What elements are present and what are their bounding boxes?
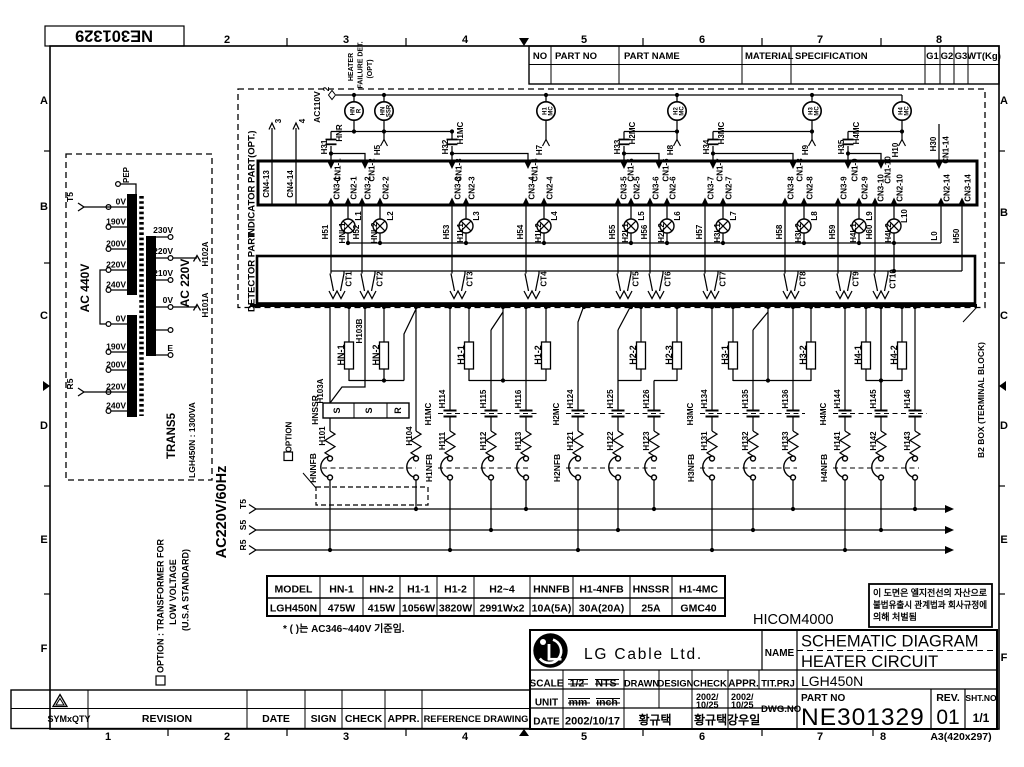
svg-text:H10: H10 — [891, 142, 900, 157]
MC dashed link H1MC — [438, 413, 538, 415]
svg-text:CN2-4: CN2-4 — [546, 176, 555, 200]
indicator-detector dashed enclosure — [238, 89, 985, 308]
svg-text:H116: H116 — [514, 389, 523, 408]
wire to bus — [449, 480, 451, 550]
svg-text:475W: 475W — [328, 603, 356, 615]
svg-text:H2-2: H2-2 — [628, 345, 638, 365]
svg-text:REFERENCE DRAWING: REFERENCE DRAWING — [424, 714, 529, 724]
MC dashed link H2MC — [566, 413, 666, 415]
heater capacitor H144 — [844, 306, 846, 411]
svg-text:H1-2: H1-2 — [444, 584, 467, 596]
wire to bus — [329, 480, 331, 550]
svg-text:H60: H60 — [865, 224, 874, 239]
heater element H111 — [449, 418, 451, 432]
svg-text:B: B — [1000, 207, 1008, 219]
resistor H3-2 — [810, 306, 812, 343]
svg-text:B: B — [40, 201, 48, 213]
svg-text:H54: H54 — [516, 224, 525, 239]
svg-text:200V: 200V — [106, 360, 126, 370]
contact H34 — [712, 132, 714, 140]
connector CN3-2 — [358, 198, 365, 206]
connector CN2-9 — [855, 198, 862, 206]
svg-text:R5: R5 — [238, 539, 248, 550]
wire H104 — [415, 306, 417, 432]
connector CN1-6 — [655, 162, 662, 170]
wire H101A — [173, 306, 197, 308]
connector CN1-9 — [844, 162, 851, 170]
wire lamp feed — [383, 95, 385, 102]
svg-text:CT5: CT5 — [632, 271, 641, 287]
svg-text:H3-2: H3-2 — [798, 345, 808, 365]
svg-text:CN3-10: CN3-10 — [877, 174, 886, 202]
svg-text:H115: H115 — [479, 389, 488, 408]
current transformer CT7 — [717, 271, 719, 274]
svg-text:H58: H58 — [775, 224, 784, 239]
svg-text:0V: 0V — [116, 197, 127, 207]
svg-text:HNL2: HNL2 — [370, 222, 379, 243]
svg-text:CN2-8: CN2-8 — [806, 176, 815, 200]
svg-text:H144: H144 — [833, 389, 842, 409]
heater capacitor H126 — [653, 381, 655, 411]
connector CN3-14 — [958, 198, 965, 206]
svg-text:7: 7 — [817, 34, 823, 46]
svg-text:황규택: 황규택 — [638, 712, 671, 727]
wire H50 — [961, 205, 963, 271]
title strip NE301329 box (mirrored) — [45, 26, 184, 46]
heater element H101 — [329, 418, 331, 431]
svg-text:CT2: CT2 — [376, 271, 385, 287]
connector CN2-14 — [937, 198, 944, 206]
indicator lamp L1 — [341, 219, 355, 233]
breaker pole — [710, 456, 715, 461]
svg-text:CHECK: CHECK — [693, 679, 727, 690]
svg-text:SIGN: SIGN — [311, 713, 337, 725]
svg-text:HNNFB: HNNFB — [308, 453, 318, 483]
wire to bus — [711, 480, 713, 550]
svg-text:H1MC: H1MC — [424, 402, 433, 425]
breaker link H1NFB — [438, 467, 530, 469]
svg-text:SSR: SSR — [387, 104, 393, 117]
resistor HN-1 — [348, 306, 350, 343]
node resistor common — [733, 380, 811, 382]
svg-text:T5: T5 — [238, 499, 248, 509]
connector CN3-7 — [701, 198, 708, 206]
heater element H104 — [411, 431, 421, 456]
svg-text:H136: H136 — [781, 389, 790, 409]
connector CN3-1 — [327, 198, 334, 206]
svg-text:AC220V/60Hz: AC220V/60Hz — [214, 466, 230, 559]
wire H3L2 — [803, 205, 805, 219]
heater capacitor H114 — [449, 306, 451, 411]
svg-text:H2L2: H2L2 — [657, 223, 666, 243]
heater capacitor H136 — [792, 306, 794, 411]
wire H1L1 — [465, 205, 467, 219]
svg-text:CT1: CT1 — [345, 271, 354, 287]
svg-text:HN-1: HN-1 — [329, 584, 354, 596]
svg-text:A: A — [40, 95, 48, 107]
svg-text:CN3-1: CN3-1 — [333, 176, 342, 200]
lamp common bus — [348, 242, 941, 244]
pilot lamp H4MC — [893, 102, 911, 120]
svg-text:HN-1: HN-1 — [336, 344, 346, 365]
pilot lamp HN-SSR — [375, 102, 393, 120]
wire lamp bus to CT line — [893, 243, 895, 271]
heater element H112 — [490, 418, 492, 432]
connector CN3-6 — [646, 198, 653, 206]
svg-text:GMC40: GMC40 — [680, 603, 716, 615]
wire to bus — [914, 480, 916, 509]
connector CN3-9 — [834, 198, 841, 206]
svg-text:0V: 0V — [163, 295, 174, 305]
heater element H131 — [711, 418, 713, 432]
wire H54 to CT — [525, 205, 527, 274]
svg-text:HNNFB: HNNFB — [533, 584, 570, 596]
svg-text:G2: G2 — [941, 51, 954, 62]
svg-text:H4NFB: H4NFB — [819, 454, 829, 482]
wire lamp feed — [545, 95, 547, 102]
connector CN1-4 — [524, 162, 531, 170]
left centering mark — [43, 381, 50, 391]
title block — [530, 630, 997, 729]
breaker pole — [448, 456, 453, 461]
wire to connectors CN1-5 CN1-6 — [624, 146, 659, 161]
wire to bus — [617, 480, 619, 530]
wire H59 to CT — [837, 205, 839, 274]
svg-text:CN2-3: CN2-3 — [468, 176, 477, 200]
heater element H132 — [752, 418, 754, 432]
connector CN1-2 — [361, 162, 368, 170]
riser wire — [502, 306, 504, 381]
connector 2 diamond — [329, 91, 336, 100]
svg-text:INDICATOR PART(OPT.): INDICATOR PART(OPT.) — [247, 130, 258, 237]
svg-text:H2MC: H2MC — [552, 402, 561, 425]
svg-text:NE301329: NE301329 — [75, 27, 153, 45]
connector CN2-1 — [344, 198, 351, 206]
pilot lamp H3MC — [803, 102, 821, 120]
svg-text:H102A: H102A — [201, 241, 210, 266]
svg-text:CN3-7: CN3-7 — [707, 176, 716, 200]
svg-text:G1: G1 — [926, 51, 939, 62]
transformer primary winding lower — [127, 315, 137, 417]
svg-text:CN2-6: CN2-6 — [669, 176, 678, 200]
indicator lamp L3 — [459, 219, 473, 233]
svg-text:CN4-13: CN4-13 — [262, 170, 271, 198]
svg-text:H4-2: H4-2 — [889, 345, 899, 365]
svg-text:H51: H51 — [321, 224, 330, 239]
svg-text:200V: 200V — [106, 239, 126, 249]
svg-text:L0: L0 — [930, 231, 939, 241]
heater capacitor H125 — [617, 381, 619, 411]
svg-text:H1-4MC: H1-4MC — [679, 584, 719, 596]
svg-text:SYMxQTY: SYMxQTY — [47, 714, 90, 724]
svg-text:CN3-3: CN3-3 — [454, 176, 463, 200]
heater capacitor H145 — [880, 306, 882, 411]
svg-text:L4: L4 — [550, 211, 559, 221]
wire to bus — [653, 480, 655, 509]
svg-text:240V: 240V — [106, 401, 126, 411]
svg-text:190V: 190V — [106, 217, 126, 227]
svg-text:10/25: 10/25 — [731, 700, 754, 710]
wire H4L1 — [858, 205, 860, 219]
svg-text:SHT.NO: SHT.NO — [965, 693, 997, 703]
resistor H2-3 — [676, 306, 678, 343]
svg-text:MC: MC — [680, 106, 686, 116]
svg-text:5: 5 — [581, 34, 587, 46]
svg-text:LGH450N: LGH450N — [270, 603, 317, 615]
svg-text:H4L1: H4L1 — [849, 223, 858, 243]
svg-text:4: 4 — [462, 731, 469, 743]
indicator lamp L9 — [852, 219, 866, 233]
svg-text:L10: L10 — [900, 209, 909, 223]
heater capacitor H116 — [525, 306, 527, 411]
svg-text:H34: H34 — [702, 139, 711, 154]
wire H101 feed — [329, 306, 331, 404]
svg-text:LGH450N: LGH450N — [801, 673, 863, 689]
svg-text:A3(420x297): A3(420x297) — [930, 731, 991, 743]
svg-text:HNSSR: HNSSR — [310, 395, 320, 425]
transformer primary winding upper — [127, 194, 137, 295]
heater capacitor H134 — [711, 306, 713, 411]
indicator lamp L2 — [373, 219, 387, 233]
wire H56 to CT — [649, 205, 651, 274]
connector CN3-3 — [448, 198, 455, 206]
riser wire — [767, 306, 769, 381]
contact rail H2 section — [624, 131, 677, 133]
svg-text:E: E — [1000, 534, 1007, 546]
svg-text:240V: 240V — [106, 280, 126, 290]
svg-text:의해 처벌됨: 의해 처벌됨 — [873, 611, 917, 622]
svg-text:HNSSR: HNSSR — [633, 584, 670, 596]
svg-text:H8: H8 — [666, 144, 675, 155]
wire lamp to common — [347, 233, 349, 243]
svg-text:H9: H9 — [801, 144, 810, 155]
svg-text:DWG.NO: DWG.NO — [761, 704, 801, 715]
wire lamp H2MC / connector H8 — [676, 121, 678, 141]
svg-text:H1-1: H1-1 — [407, 584, 430, 596]
svg-text:SCHEMATIC DIAGRAM: SCHEMATIC DIAGRAM — [801, 633, 979, 651]
svg-text:H4: H4 — [898, 107, 904, 115]
svg-text:25A: 25A — [641, 603, 661, 615]
connector CN2-10 — [890, 198, 897, 206]
diagonal feed — [491, 312, 503, 330]
connector CN2-8 — [800, 198, 807, 206]
wire H53 to CT — [451, 205, 453, 274]
svg-text:G3: G3 — [955, 51, 968, 62]
current transformer CT5 — [630, 271, 632, 274]
connector CN3-8 — [781, 198, 788, 206]
wire lamp feed — [353, 95, 355, 102]
svg-text:L7: L7 — [729, 211, 738, 221]
resistor H4-1 — [865, 306, 867, 343]
svg-text:H3: H3 — [808, 107, 814, 115]
svg-text:CT8: CT8 — [799, 271, 808, 287]
heater element H113 — [525, 418, 527, 432]
indicator lamp L7 — [716, 219, 730, 233]
wire H55 to CT — [617, 205, 619, 274]
svg-text:CN4-14: CN4-14 — [286, 170, 295, 198]
svg-text:1: 1 — [105, 731, 111, 743]
wire to connectors CN1-9 CN1-10 — [848, 146, 881, 161]
wire lamp HN-SSR / connector H5 — [383, 121, 385, 141]
svg-text:H1-4NFB: H1-4NFB — [579, 584, 624, 596]
wire lamp to common — [858, 233, 860, 243]
connector CN3-10 — [871, 198, 878, 206]
svg-text:H4MC: H4MC — [852, 121, 861, 144]
wire to bus — [490, 480, 492, 530]
wire HNL2 — [379, 205, 381, 219]
svg-text:R5: R5 — [65, 378, 75, 389]
revision strip — [11, 690, 530, 729]
svg-text:H4MC: H4MC — [819, 402, 828, 425]
svg-text:L5: L5 — [637, 211, 646, 221]
svg-text:H111: H111 — [438, 431, 447, 450]
connector CN1-3 — [448, 162, 455, 170]
svg-text:황규택강우일: 황규택강우일 — [694, 712, 760, 727]
svg-text:8: 8 — [880, 731, 886, 743]
svg-text:MODEL: MODEL — [275, 584, 314, 596]
svg-text:H50: H50 — [952, 228, 961, 243]
svg-text:H135: H135 — [741, 389, 750, 409]
wire L0 — [940, 205, 942, 243]
detector terminal box — [257, 256, 975, 304]
svg-text:CN3-2: CN3-2 — [364, 176, 373, 200]
wire to bus — [525, 480, 527, 509]
contact H31 — [330, 132, 332, 140]
svg-text:10A(5A): 10A(5A) — [532, 603, 572, 615]
svg-text:8: 8 — [936, 34, 942, 46]
svg-text:L3: L3 — [472, 211, 481, 221]
wire lamp to common — [722, 233, 724, 243]
svg-text:CT10: CT10 — [889, 269, 898, 289]
option note low voltage transformer — [156, 676, 165, 685]
svg-text:6: 6 — [699, 731, 705, 743]
svg-text:L2: L2 — [386, 211, 395, 221]
connector CN2-7 — [719, 198, 726, 206]
connector CN3-4 — [522, 198, 529, 206]
svg-text:H124: H124 — [566, 389, 575, 409]
wire AC110V supply — [336, 94, 902, 96]
connector CN3-5 — [614, 198, 621, 206]
svg-text:CN3-14: CN3-14 — [964, 174, 973, 202]
svg-text:H31: H31 — [320, 139, 329, 154]
svg-text:H143: H143 — [903, 431, 912, 451]
svg-text:S5: S5 — [238, 520, 248, 531]
wire bridge 220V-0V — [100, 270, 106, 324]
svg-text:H33: H33 — [613, 139, 622, 154]
svg-text:01: 01 — [936, 706, 959, 729]
svg-text:PART NAME: PART NAME — [624, 51, 680, 62]
svg-text:이 도면은 엘지전선의 자산으로: 이 도면은 엘지전선의 자산으로 — [873, 587, 988, 598]
svg-text:CHECK: CHECK — [345, 713, 383, 725]
svg-text:HN: HN — [350, 107, 356, 116]
svg-text:C: C — [40, 310, 48, 322]
breaker pole — [489, 456, 494, 461]
heater element H143 — [914, 418, 916, 432]
svg-text:H141: H141 — [833, 431, 842, 451]
svg-text:HN-2: HN-2 — [371, 344, 381, 365]
svg-text:CT6: CT6 — [664, 271, 673, 287]
contact rail HN section — [331, 131, 452, 133]
svg-text:2: 2 — [224, 34, 230, 46]
LG logo — [533, 633, 567, 667]
svg-text:APPR.: APPR. — [387, 713, 419, 725]
connector CN4-13 — [271, 128, 273, 204]
svg-text:H146: H146 — [903, 389, 912, 409]
svg-text:H7: H7 — [535, 144, 544, 155]
wire lamp H3MC / connector H9 — [811, 121, 813, 141]
svg-text:CN3-8: CN3-8 — [787, 176, 796, 200]
contact rail H3 section — [713, 131, 812, 133]
MC dashed link H3MC — [700, 413, 805, 415]
svg-text:DRAWN: DRAWN — [624, 679, 659, 689]
indicator lamp L4 — [537, 219, 551, 233]
svg-text:30A(20A): 30A(20A) — [579, 603, 625, 615]
svg-text:* ( )는 AC346~440V 기준임.: * ( )는 AC346~440V 기준임. — [283, 622, 405, 635]
connector CN1-7 — [709, 162, 716, 170]
wire H58 to CT — [784, 205, 786, 274]
heater capacitor H135 — [752, 330, 754, 410]
terminal block bar — [250, 304, 977, 307]
svg-text:OPTION: OPTION — [285, 421, 294, 452]
svg-text:REV.: REV. — [936, 692, 960, 704]
diagonal feed H122 — [618, 306, 631, 331]
wire lamp feed — [811, 95, 813, 102]
current transformer CT8 — [797, 271, 799, 274]
indicator lamp L5 — [624, 219, 638, 233]
breaker pole — [843, 456, 848, 461]
connector CN1-10 — [877, 162, 884, 170]
svg-text:HNR: HNR — [335, 124, 344, 142]
wire lamp to common — [630, 233, 632, 243]
svg-text:PART NO: PART NO — [555, 51, 597, 62]
svg-text:5: 5 — [581, 731, 587, 743]
svg-text:H4-1: H4-1 — [853, 345, 863, 365]
connector CN2-2 — [376, 198, 383, 206]
svg-text:HN: HN — [380, 107, 386, 116]
wire lamp to common — [379, 233, 381, 243]
svg-text:PEP: PEP — [122, 166, 131, 183]
wire lamp feed — [676, 95, 678, 102]
wire to bus — [577, 480, 579, 550]
svg-text:TRANS5: TRANS5 — [166, 412, 178, 459]
svg-text:3: 3 — [343, 731, 349, 743]
contact H35 — [847, 132, 849, 140]
svg-text:2: 2 — [322, 86, 331, 91]
svg-text:H5: H5 — [373, 144, 382, 155]
svg-text:0V: 0V — [116, 314, 127, 324]
svg-text:H3NFB: H3NFB — [686, 454, 696, 482]
svg-text:H3L2: H3L2 — [794, 223, 803, 243]
wire to bus — [752, 480, 754, 530]
svg-text:H2~4: H2~4 — [489, 584, 515, 596]
svg-text:SPECIFICATION: SPECIFICATION — [795, 51, 868, 62]
svg-text:H125: H125 — [606, 389, 615, 409]
svg-text:AC 440V: AC 440V — [78, 264, 92, 313]
svg-text:1056W: 1056W — [402, 603, 435, 615]
indicator lamp L6 — [660, 219, 674, 233]
wire to bus — [792, 480, 794, 509]
svg-text:(U.S.A STANDARD): (U.S.A STANDARD) — [181, 549, 191, 631]
svg-text:CT4: CT4 — [540, 271, 549, 287]
svg-text:LG Cable Ltd.: LG Cable Ltd. — [584, 646, 703, 663]
svg-text:DESIGN: DESIGN — [658, 679, 694, 689]
wire to bus — [844, 480, 846, 550]
svg-text:AC110V: AC110V — [312, 91, 322, 123]
svg-text:210V: 210V — [153, 268, 173, 278]
wire H103B — [330, 306, 365, 404]
current transformer CT3 — [464, 271, 466, 274]
svg-text:H32: H32 — [441, 139, 450, 154]
